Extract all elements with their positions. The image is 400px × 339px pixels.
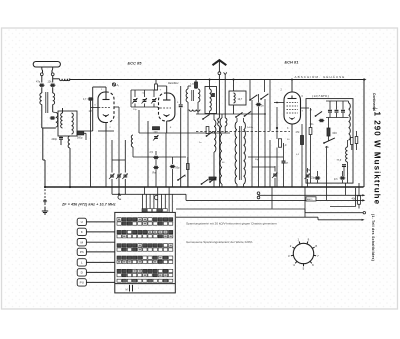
inductor L3 choke on bus — [60, 79, 71, 81]
wire L8 drop — [187, 102, 189, 187]
svg-text:AM15: AM15 — [307, 198, 313, 201]
wire bus5 — [176, 216, 318, 218]
trimmer C6 — [118, 160, 120, 173]
wire trimmer bus y90 — [131, 89, 158, 91]
trimmer C8 dark 4,5 — [89, 97, 93, 100]
wire dashed ground lead — [44, 189, 46, 207]
wire bus4 — [176, 208, 305, 210]
capacitor C3 240p — [60, 135, 62, 138]
svg-text:U: U — [81, 220, 83, 224]
wire x280 drop — [279, 148, 281, 188]
V3 cathode — [289, 118, 295, 119]
arrow top bus end — [364, 78, 367, 80]
UKW unit box — [306, 99, 353, 184]
svg-text:|: | — [372, 108, 378, 109]
wire y131 h — [77, 130, 93, 132]
svg-text:77,8: 77,8 — [337, 160, 342, 162]
V1 grid dashed — [99, 107, 111, 109]
wire V1 right lead — [114, 106, 119, 108]
IF box L10 — [205, 87, 217, 114]
core lines L1L2 — [45, 92, 47, 113]
resistor R5 — [206, 127, 209, 134]
V2 anode — [166, 93, 168, 100]
wire corner L right — [355, 188, 357, 207]
switch S2b — [209, 181, 211, 183]
trimmer A1 symbol — [112, 83, 115, 86]
FM dipole antenna roof — [213, 60, 227, 65]
svg-text:M: M — [81, 240, 84, 244]
V1 anode — [105, 92, 107, 100]
svg-text:603: 603 — [333, 132, 338, 135]
capacitor C2 dark 12k — [51, 84, 55, 87]
antenna terminal circles — [40, 73, 43, 76]
inductor L9 lower — [189, 110, 200, 112]
trimmer C16 — [273, 173, 277, 175]
button Ph — [77, 248, 86, 255]
node C — [118, 195, 121, 199]
resistor R8 47k — [301, 136, 304, 145]
wire h167 short — [252, 166, 275, 168]
wire box bottom — [209, 111, 211, 114]
matrix row group 1 — [117, 218, 121, 221]
switch S4 — [249, 99, 251, 101]
wire bus3 — [186, 199, 363, 201]
svg-text:M: M — [126, 289, 128, 292]
trimmer C11 — [153, 90, 155, 97]
wire bus drops right — [271, 187, 273, 209]
IF box2 L15 — [229, 91, 246, 105]
svg-text:( 10,7 MHz ): ( 10,7 MHz ) — [312, 94, 329, 98]
matrix row group 2 — [117, 230, 121, 233]
osc box — [58, 111, 77, 136]
feeder coil — [218, 118, 220, 126]
svg-text:1 290 W Musiktruhe: 1 290 W Musiktruhe — [373, 112, 382, 206]
resistor R2 on top wire — [155, 84, 158, 90]
matrix row group 4 — [117, 256, 121, 259]
inductor L1 — [40, 93, 42, 105]
wire V2 grid lead — [159, 107, 161, 109]
wire right edge vertical — [363, 80, 365, 188]
svg-text:2x18p: 2x18p — [247, 127, 254, 129]
inductor L13 tall — [235, 122, 237, 184]
capacitor C23 ukw — [329, 101, 331, 110]
V2 cathode — [164, 115, 170, 116]
svg-text:Gemessene Spannungstoleranz de: Gemessene Spannungstoleranz der Werte ±2… — [186, 240, 253, 244]
wire x166 vertical — [165, 133, 167, 187]
wire button L — [86, 261, 114, 263]
switch S2a — [201, 183, 203, 185]
AM box — [306, 197, 316, 201]
wire L7 top hook — [187, 86, 189, 89]
V3 grids dashed — [287, 102, 299, 104]
capacitor C14 dark 5n — [257, 103, 261, 106]
inductor L7 — [186, 89, 188, 102]
svg-text:47p: 47p — [36, 80, 41, 83]
matrix bottom section — [115, 283, 176, 285]
dipole feeder right — [224, 77, 226, 118]
wire x92 vertical — [92, 87, 94, 131]
trimmer C17 — [306, 174, 310, 176]
button PU — [77, 279, 86, 286]
inductor L12 long — [220, 118, 222, 184]
V3 anode — [291, 96, 293, 99]
wire main ground bus — [45, 186, 364, 188]
trimmer C22 dark — [320, 119, 324, 122]
wire matrix feeds from bus — [143, 187, 145, 194]
tube V1 ECC85a — [98, 92, 114, 123]
button L — [77, 259, 86, 266]
resistor R9 603 — [327, 128, 330, 136]
capacitor C20 stack 2,5 — [155, 151, 157, 155]
wire V2 bottom — [166, 121, 168, 133]
capacitor C24 ukw — [336, 101, 338, 110]
wire button U — [86, 221, 114, 223]
svg-text:Spannungswerte mit 20 kΩ/V-Ins: Spannungswerte mit 20 kΩ/V-Instrument ge… — [186, 221, 277, 225]
button M — [77, 239, 86, 246]
switch S1a — [202, 118, 204, 120]
wire low left — [138, 110, 140, 133]
capacitor C25 ukw — [342, 101, 344, 110]
wire right lead to bus — [52, 78, 54, 83]
capacitor C15 — [282, 160, 286, 162]
wire feeder bottom — [218, 126, 220, 187]
dipole stem and circle — [218, 61, 220, 72]
button U — [77, 218, 86, 225]
svg-text:L: L — [81, 261, 83, 265]
svg-text:ECC 85: ECC 85 — [128, 60, 143, 65]
capacitor C4 500p lead — [85, 133, 87, 140]
inductor L15 inside — [234, 93, 236, 103]
wire V3 leads — [274, 102, 284, 104]
button D — [77, 269, 86, 276]
svg-text:10,7: 10,7 — [238, 98, 243, 101]
switch S3b — [244, 115, 246, 117]
wire V3 anode to bus — [291, 80, 293, 93]
junction dots V3 — [276, 102, 278, 104]
matrix row group 5 — [117, 269, 121, 272]
resistor R7 1,0 — [279, 139, 282, 148]
core L7L8 — [191, 90, 193, 101]
wire button K — [86, 231, 114, 233]
trimmer C10 — [144, 90, 146, 97]
resistor R10 ukw — [309, 128, 312, 135]
junction dots mid — [264, 113, 266, 115]
switch matrix box — [115, 212, 176, 293]
switch S3a — [235, 116, 237, 118]
inductor L6b left — [131, 135, 133, 147]
wire V1 top lead — [105, 87, 107, 92]
matrix top cells — [142, 209, 146, 212]
matrix slim row — [117, 279, 121, 282]
wire trimmer bottoms y107 — [131, 106, 158, 108]
capacitor C26 dark — [316, 176, 320, 179]
wire bus2 — [259, 194, 364, 196]
svg-text:500p: 500p — [77, 137, 83, 140]
svg-text:ABSCHIRM. GEHÄUSE: ABSCHIRM. GEHÄUSE — [295, 75, 346, 79]
resistor R11 right — [358, 196, 361, 205]
wire button PU — [86, 281, 114, 283]
switch S8 — [177, 179, 179, 181]
switch S7 ukw 24k — [323, 142, 325, 144]
wire h157 — [248, 156, 283, 158]
wire L4 top — [62, 108, 64, 113]
wire trimmer sub-line — [112, 193, 186, 195]
V2 grid dashed — [160, 107, 171, 109]
capacitor C1 dark 47p — [40, 84, 44, 87]
trimmer C12 low — [154, 136, 158, 138]
core L13L14 — [239, 126, 241, 180]
tube V2 ECC85b — [159, 93, 175, 121]
wire antenna ground drop — [42, 128, 44, 160]
wire ukw cap rails — [326, 100, 349, 102]
tube socket diagram — [293, 243, 313, 263]
trimmer C9 — [134, 90, 136, 97]
wire h114 — [196, 113, 265, 115]
svg-text:ZF = 456 (472) kHz + 10,7 MHz: ZF = 456 (472) kHz + 10,7 MHz — [61, 203, 116, 207]
button K — [77, 228, 86, 235]
wire caps to coils — [41, 87, 43, 93]
wire trimmer top tie — [112, 159, 125, 161]
wire box2 leads — [233, 80, 235, 92]
capacitor C18 ukw — [342, 164, 346, 166]
wire L13 feeds — [236, 118, 238, 122]
svg-text:Ratiofilter: Ratiofilter — [168, 82, 179, 85]
switch S5 — [260, 98, 262, 100]
inductor L2 — [53, 93, 55, 105]
wire antenna leads down — [41, 76, 43, 83]
switch S6 ukw top — [315, 115, 317, 117]
dark element in box — [212, 93, 215, 97]
wire V2 top — [166, 86, 168, 93]
inductor L10 inside — [210, 89, 212, 111]
resistor R4 dark top — [195, 82, 198, 88]
svg-text:(1. Teil des Schaltbildes): (1. Teil des Schaltbildes) — [371, 214, 375, 261]
wire V1 bottom lead — [105, 122, 107, 131]
svg-text:PU: PU — [80, 281, 84, 285]
capacitor C27 dark 47n — [341, 176, 345, 179]
wire x277 — [276, 107, 278, 139]
svg-text:240p: 240p — [52, 138, 58, 141]
wire drops mid2 — [251, 100, 253, 187]
inductor L8 — [198, 89, 200, 102]
inductor L14 tall — [244, 122, 246, 184]
resistor R6 dark mid — [209, 177, 216, 180]
wire v2 right — [175, 106, 181, 108]
resistor R3 dark 220 — [153, 127, 160, 130]
wire matrix feeds — [142, 194, 144, 212]
inductor L11 long — [214, 120, 216, 152]
switch S1b — [206, 135, 208, 137]
svg-text:80p: 80p — [176, 167, 181, 170]
wire bottom joiner — [42, 127, 56, 129]
svg-text:A₁: A₁ — [117, 83, 120, 87]
inductor L5 in box — [72, 113, 74, 134]
inductor L15 ukw right — [349, 103, 351, 140]
wire dashed AGC — [196, 131, 290, 133]
tube V3 ECH81 — [284, 92, 301, 124]
wire box top — [209, 80, 211, 90]
wire button D — [86, 271, 114, 273]
ground GND1 — [44, 207, 46, 211]
resistor R1 500p — [77, 132, 84, 135]
wire button Ph — [86, 251, 114, 253]
V1 cathode — [103, 115, 109, 116]
wire V1 grid lead — [91, 107, 99, 109]
wire L6 bottom drop — [69, 148, 71, 187]
resistor R14 outside — [355, 137, 358, 144]
matrix row group 3 — [117, 244, 121, 247]
svg-text:ECH 81: ECH 81 — [285, 59, 300, 64]
inductor L16 ukw — [346, 147, 348, 162]
resistor R13 ukw right — [351, 138, 354, 145]
wire button M — [86, 241, 114, 243]
svg-text:Ph: Ph — [80, 250, 84, 254]
connector hook — [154, 195, 157, 199]
capacitor C21 80p — [172, 157, 174, 164]
wire top HT bus — [70, 79, 364, 81]
inductor L4 in box — [61, 113, 63, 128]
inductor L2b lower — [52, 105, 54, 113]
inductor L6 below box — [68, 136, 70, 148]
dark blob 2k — [51, 116, 55, 119]
connector circles mid — [257, 192, 260, 195]
trimmer C7 — [124, 140, 126, 173]
wire L1 bottom — [41, 105, 43, 129]
trimmer C5 — [111, 140, 113, 173]
capacitor C13 1n — [180, 86, 182, 104]
feeder Y symbol — [224, 72, 227, 77]
resistor R12 small — [187, 164, 190, 170]
antenna ANT1 — [33, 62, 60, 68]
wire h157 left — [133, 156, 186, 158]
wire ukw bottom drops — [310, 140, 312, 183]
